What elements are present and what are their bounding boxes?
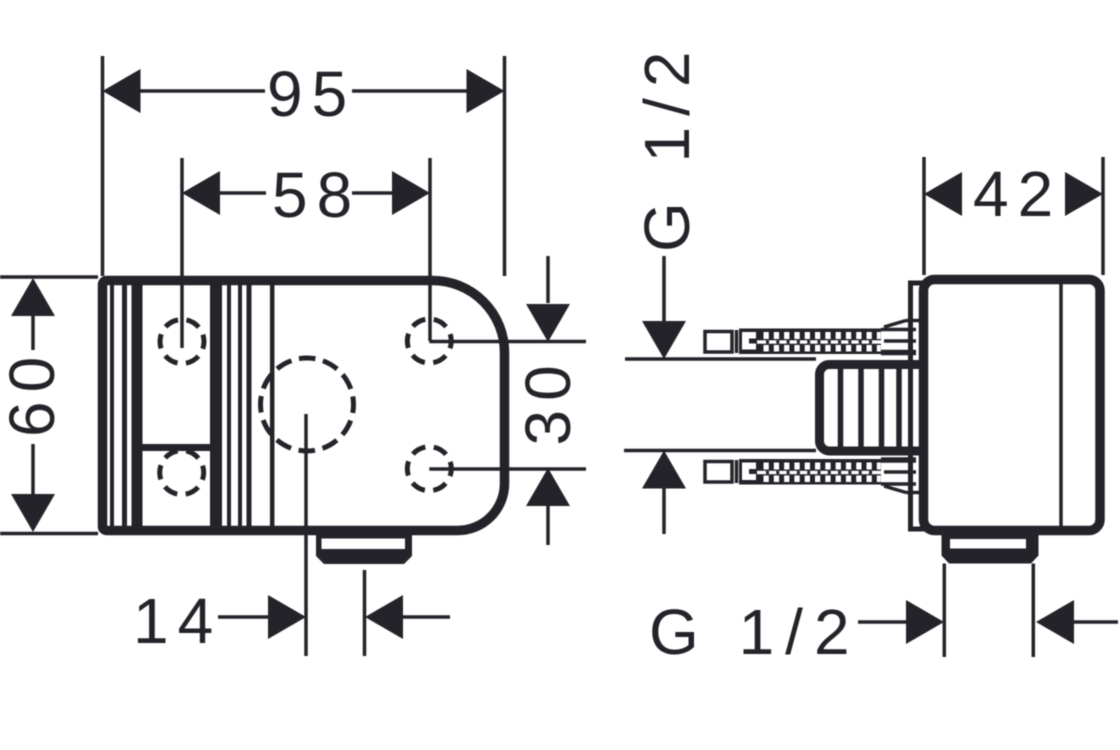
svg-text:60: 60 xyxy=(0,348,68,437)
svg-text:58: 58 xyxy=(272,159,361,231)
svg-text:14: 14 xyxy=(133,585,222,657)
svg-text:G 1/2: G 1/2 xyxy=(649,596,861,668)
svg-text:42: 42 xyxy=(973,158,1062,230)
svg-text:30: 30 xyxy=(512,356,584,445)
svg-text:95: 95 xyxy=(267,58,356,130)
svg-text:G 1/2: G 1/2 xyxy=(631,40,703,252)
